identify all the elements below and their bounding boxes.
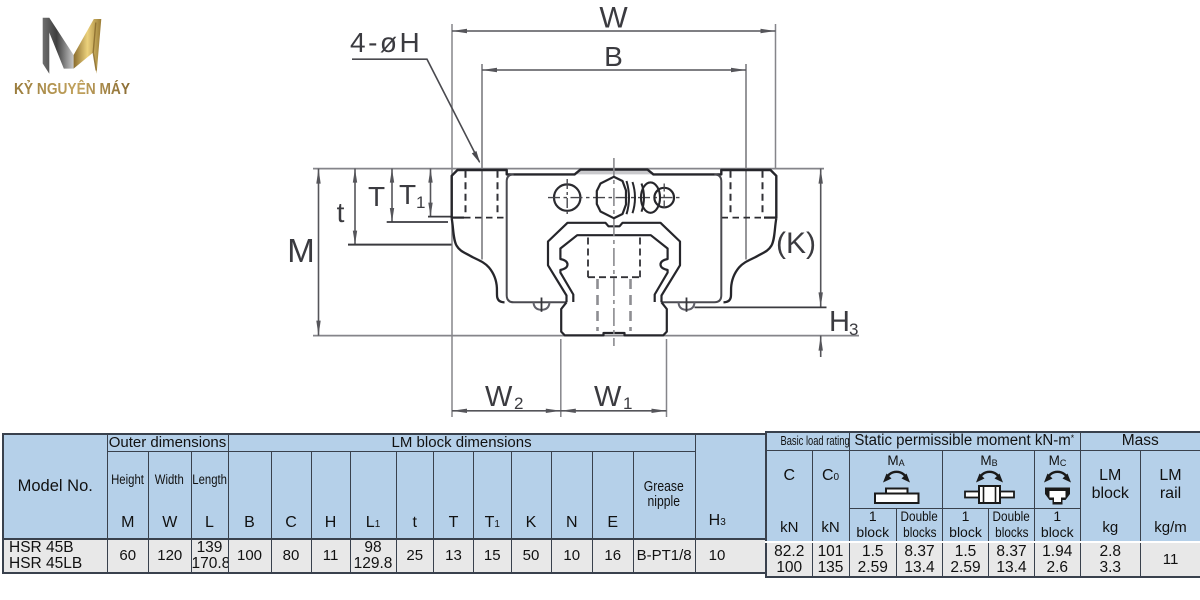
svg-text:B: B — [604, 41, 623, 72]
grease nipple ball centerline — [663, 184, 665, 212]
dimension B — [482, 69, 746, 71]
flange bolt hole dashes right — [731, 171, 763, 216]
bolt hole centerline left / B extension — [481, 64, 483, 260]
svg-text:W: W — [485, 381, 513, 413]
seal tab left — [534, 302, 550, 310]
dimension W1 — [561, 410, 667, 412]
bolt hole centerline right / B extension — [745, 64, 747, 260]
dimension W2 — [452, 410, 561, 412]
flange underside solid left — [452, 217, 464, 219]
flange bolt hole dashes left — [466, 171, 498, 216]
flange underside dashed right — [722, 217, 765, 219]
flange underside dashed left — [464, 217, 506, 219]
rail counterbore dashed — [588, 238, 640, 278]
svg-text:(K): (K) — [776, 227, 816, 260]
nipple horizontal centerline — [548, 197, 681, 199]
dimension (K) — [820, 169, 822, 308]
right skirt — [724, 218, 777, 302]
grease nipple hex head — [597, 177, 626, 218]
bottom reference line — [313, 335, 859, 337]
dimension T — [391, 169, 393, 222]
rail through hole dashed — [598, 279, 631, 331]
seal tab right — [679, 302, 695, 310]
svg-text:KỶ NGUYÊN MÁY: KỶ NGUYÊN MÁY — [14, 80, 131, 98]
top reference line — [313, 168, 824, 170]
flange underside solid right — [764, 217, 776, 219]
rail lower outline — [561, 302, 667, 335]
dimension T1 — [430, 169, 432, 217]
dimension W — [452, 30, 776, 32]
grease nipple ball — [654, 188, 674, 208]
block top plate fill — [575, 170, 654, 175]
T1 reference line — [428, 216, 452, 218]
svg-text:W: W — [599, 2, 628, 35]
W1 extension line right — [666, 339, 668, 417]
left table — [2, 433, 767, 574]
grease nipple ribs — [627, 181, 645, 214]
svg-text:M: M — [287, 232, 315, 269]
W extension line left — [451, 24, 453, 417]
seal tab right tick — [686, 298, 688, 312]
svg-text:1: 1 — [416, 193, 425, 212]
svg-text:W: W — [594, 381, 622, 413]
svg-text:3: 3 — [849, 320, 858, 339]
mounting hole vertical centerline — [566, 179, 568, 216]
svg-text:1: 1 — [623, 394, 632, 413]
rail upper outline — [560, 235, 667, 302]
main body right — [662, 174, 722, 302]
W extension line right — [775, 24, 777, 168]
svg-text:H: H — [829, 306, 850, 338]
svg-text:MA: MA — [887, 453, 904, 468]
right table — [765, 431, 1200, 578]
logo M gold crease — [93, 23, 96, 71]
main body left — [507, 174, 567, 302]
T reference line — [387, 221, 448, 223]
svg-text:MB: MB — [980, 453, 997, 468]
svg-text:4-øH: 4-øH — [350, 27, 422, 58]
seal tab left tick — [541, 298, 543, 312]
svg-text:t: t — [337, 197, 345, 228]
block top edge and flanges outline — [452, 170, 777, 219]
vertical centerline — [613, 158, 615, 346]
svg-text:T: T — [368, 181, 385, 212]
H3 top reference line — [695, 306, 827, 308]
svg-text:2: 2 — [514, 394, 523, 413]
dimension H3 arrow below — [820, 336, 822, 357]
svg-text:T: T — [399, 179, 416, 210]
left skirt — [452, 218, 505, 302]
grease nipple collar ellipse — [641, 182, 660, 212]
t reference line — [348, 244, 452, 246]
dimension t — [354, 169, 356, 245]
logo M gold half — [74, 19, 102, 74]
svg-text:MC: MC — [1049, 453, 1067, 468]
logo M silver half — [43, 18, 74, 74]
mounting hole circle — [554, 184, 580, 210]
cavity outline — [548, 223, 680, 302]
W1/W2 extension line middle — [560, 339, 562, 417]
dimension M — [318, 169, 320, 336]
